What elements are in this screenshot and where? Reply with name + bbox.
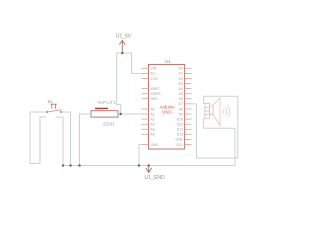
svg-text:D11: D11 [177, 123, 183, 127]
svg-text:D13: D13 [177, 133, 183, 137]
wire resistor right lead to chip pin A1 [118, 113, 142, 115]
svg-text:VIN: VIN [151, 67, 157, 71]
wire button pin2 lead left lower [40, 117, 46, 164]
node resistor/5V junction dot [119, 113, 122, 116]
svg-text:INPUT1: INPUT1 [98, 100, 117, 105]
arduino U1 right pin stubs [185, 68, 192, 144]
node 5V junction dot [121, 52, 124, 55]
svg-text:RES: RES [151, 97, 159, 101]
node rail dot gnd flag [147, 164, 150, 167]
svg-text:U1_5V: U1_5V [116, 34, 132, 40]
wire 5V flag down to resistor junction [117, 53, 123, 114]
arduino U1 left pin stubs [142, 68, 149, 144]
svg-text:AREF: AREF [151, 87, 160, 91]
svg-text:GND: GND [175, 138, 183, 142]
svg-text:A0: A0 [151, 107, 155, 111]
svg-text:A4: A4 [151, 128, 155, 132]
svg-text:D4: D4 [179, 87, 183, 91]
pushbutton S1 contacts and lever [47, 110, 62, 113]
wire button pin4 lead right lower to ground rail [56, 117, 63, 166]
pushbutton S1 actuator [51, 104, 57, 109]
svg-text:UNO: UNO [162, 110, 172, 115]
ground flag U1_GND arrow [148, 166, 150, 172]
svg-text:D9: D9 [179, 112, 183, 116]
ground rail wire [63, 165, 235, 167]
svg-text:GND: GND [151, 143, 159, 147]
power flag U1_5V arrow [121, 41, 123, 53]
wire chip D7 to speaker plus (outer loop) [192, 96, 238, 158]
svg-text:D1: D1 [179, 72, 183, 76]
svg-text:SCL: SCL [176, 143, 183, 147]
node rail dot pin4 [62, 164, 65, 167]
wire speaker minus down to ground rail [204, 118, 235, 165]
node rail dot resistor [78, 164, 81, 167]
svg-text:A1: A1 [151, 112, 155, 116]
arduino U1 body [149, 65, 185, 150]
svg-text:A3: A3 [151, 123, 155, 127]
svg-text:D7: D7 [179, 102, 183, 106]
svg-text:D8: D8 [179, 107, 183, 111]
svg-text:D6: D6 [179, 97, 183, 101]
svg-text:3.3V: 3.3V [151, 77, 159, 81]
wire button pin1 lead left [30, 112, 47, 164]
svg-text:U1_GND: U1_GND [144, 175, 165, 181]
svg-text:U1: U1 [165, 59, 171, 64]
svg-text:IOREF: IOREF [151, 92, 161, 96]
wire button left pins bottom tie [30, 163, 40, 165]
svg-text:D10: D10 [177, 117, 183, 121]
wire resistor left lead down to ground rail [80, 114, 92, 166]
svg-text:D2: D2 [179, 77, 183, 81]
svg-text:A2: A2 [151, 117, 155, 121]
svg-text:5V: 5V [151, 72, 156, 76]
wire chip GND pin down to rail [139, 145, 142, 166]
speaker LS1 sound waves [223, 106, 230, 118]
svg-text:A5: A5 [151, 133, 155, 137]
svg-text:D0: D0 [179, 67, 183, 71]
resistor R1 red label bar [95, 108, 108, 109]
resistor R1 body [91, 111, 118, 117]
arduino U1 left pin labels [151, 67, 161, 147]
wire 5V flag to chip 5V pin [122, 53, 141, 73]
speaker LS1 cone [210, 105, 214, 114]
svg-text:220Ω: 220Ω [103, 122, 115, 127]
speaker LS1 terminal block [204, 103, 210, 120]
svg-text:D5: D5 [179, 92, 183, 96]
arduino U1 right pin labels [175, 67, 183, 147]
svg-text:D12: D12 [177, 128, 183, 132]
node rail dot pin3 [69, 164, 72, 167]
svg-text:D3: D3 [179, 82, 183, 86]
wire button pin3 lead right to ground rail [61, 112, 71, 166]
svg-text:S1: S1 [48, 99, 53, 104]
node rail dot chip gnd [138, 164, 141, 167]
